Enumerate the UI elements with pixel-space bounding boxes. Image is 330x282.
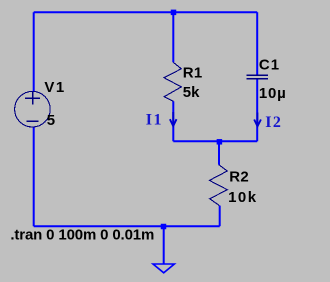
svg-text:R2: R2 [229,168,249,185]
svg-text:10k: 10k [228,189,258,206]
svg-text:C1: C1 [259,56,280,73]
svg-text:R1: R1 [183,64,203,81]
svg-text:I1: I1 [146,112,163,129]
svg-text:.tran 0 100m 0 0.01m: .tran 0 100m 0 0.01m [10,227,154,244]
svg-text:5: 5 [47,112,55,129]
svg-text:V1: V1 [44,79,65,96]
svg-text:5k: 5k [183,84,200,101]
svg-text:10µ: 10µ [259,85,287,102]
svg-text:I2: I2 [265,114,282,131]
